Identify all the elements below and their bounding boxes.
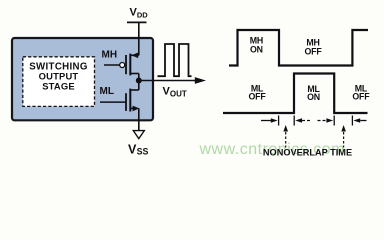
ML timing trace [223,74,368,114]
arrow into gap2 right [353,118,360,123]
nonoverlap tick at MH fall [278,116,280,126]
svg-text:VOUT: VOUT [163,86,187,99]
svg-text:VSS: VSS [128,143,149,157]
svg-text:ML: ML [100,86,114,97]
svg-text:ON: ON [250,45,263,55]
svg-text:VDD: VDD [130,6,149,19]
nonoverlap tick at MH rise [351,116,353,126]
wire ML drain to output node [138,81,140,91]
svg-text:NONOVERLAP TIME: NONOVERLAP TIME [263,148,352,158]
svg-text:OFF: OFF [352,92,370,102]
VSS symbol [133,131,144,139]
leader arrow gap1 to label [285,132,287,148]
svg-text:STAGE: STAGE [42,80,75,91]
wire VDD to MH drain [138,22,140,55]
node VOUT junction [136,78,142,84]
VOUT pulse waveform glyph [158,44,192,76]
inner dashed box U1 [23,57,95,107]
svg-text:OFF: OFF [305,46,323,56]
wire MH source to output node [138,74,140,81]
leader arrow gap2 to label [343,132,345,148]
transistor MH (PMOS) [104,53,139,76]
arrow into gap1 left [261,120,272,122]
VDD rail bar [127,21,147,23]
wire ML source to VSS [138,108,140,130]
transistor ML (NMOS) [100,89,139,112]
svg-text:ON: ON [307,92,320,102]
MH timing trace [229,30,368,66]
switching output stage block [12,38,153,120]
arrow into gap1 right [295,118,302,123]
svg-text:OFF: OFF [249,92,267,102]
nonoverlap tick at ML rise [293,116,295,126]
wire VOUT with arrow [139,80,196,82]
arrow into gap2 left [318,120,327,122]
svg-text:MH: MH [102,49,118,60]
nonoverlap tick at ML fall [333,116,335,126]
